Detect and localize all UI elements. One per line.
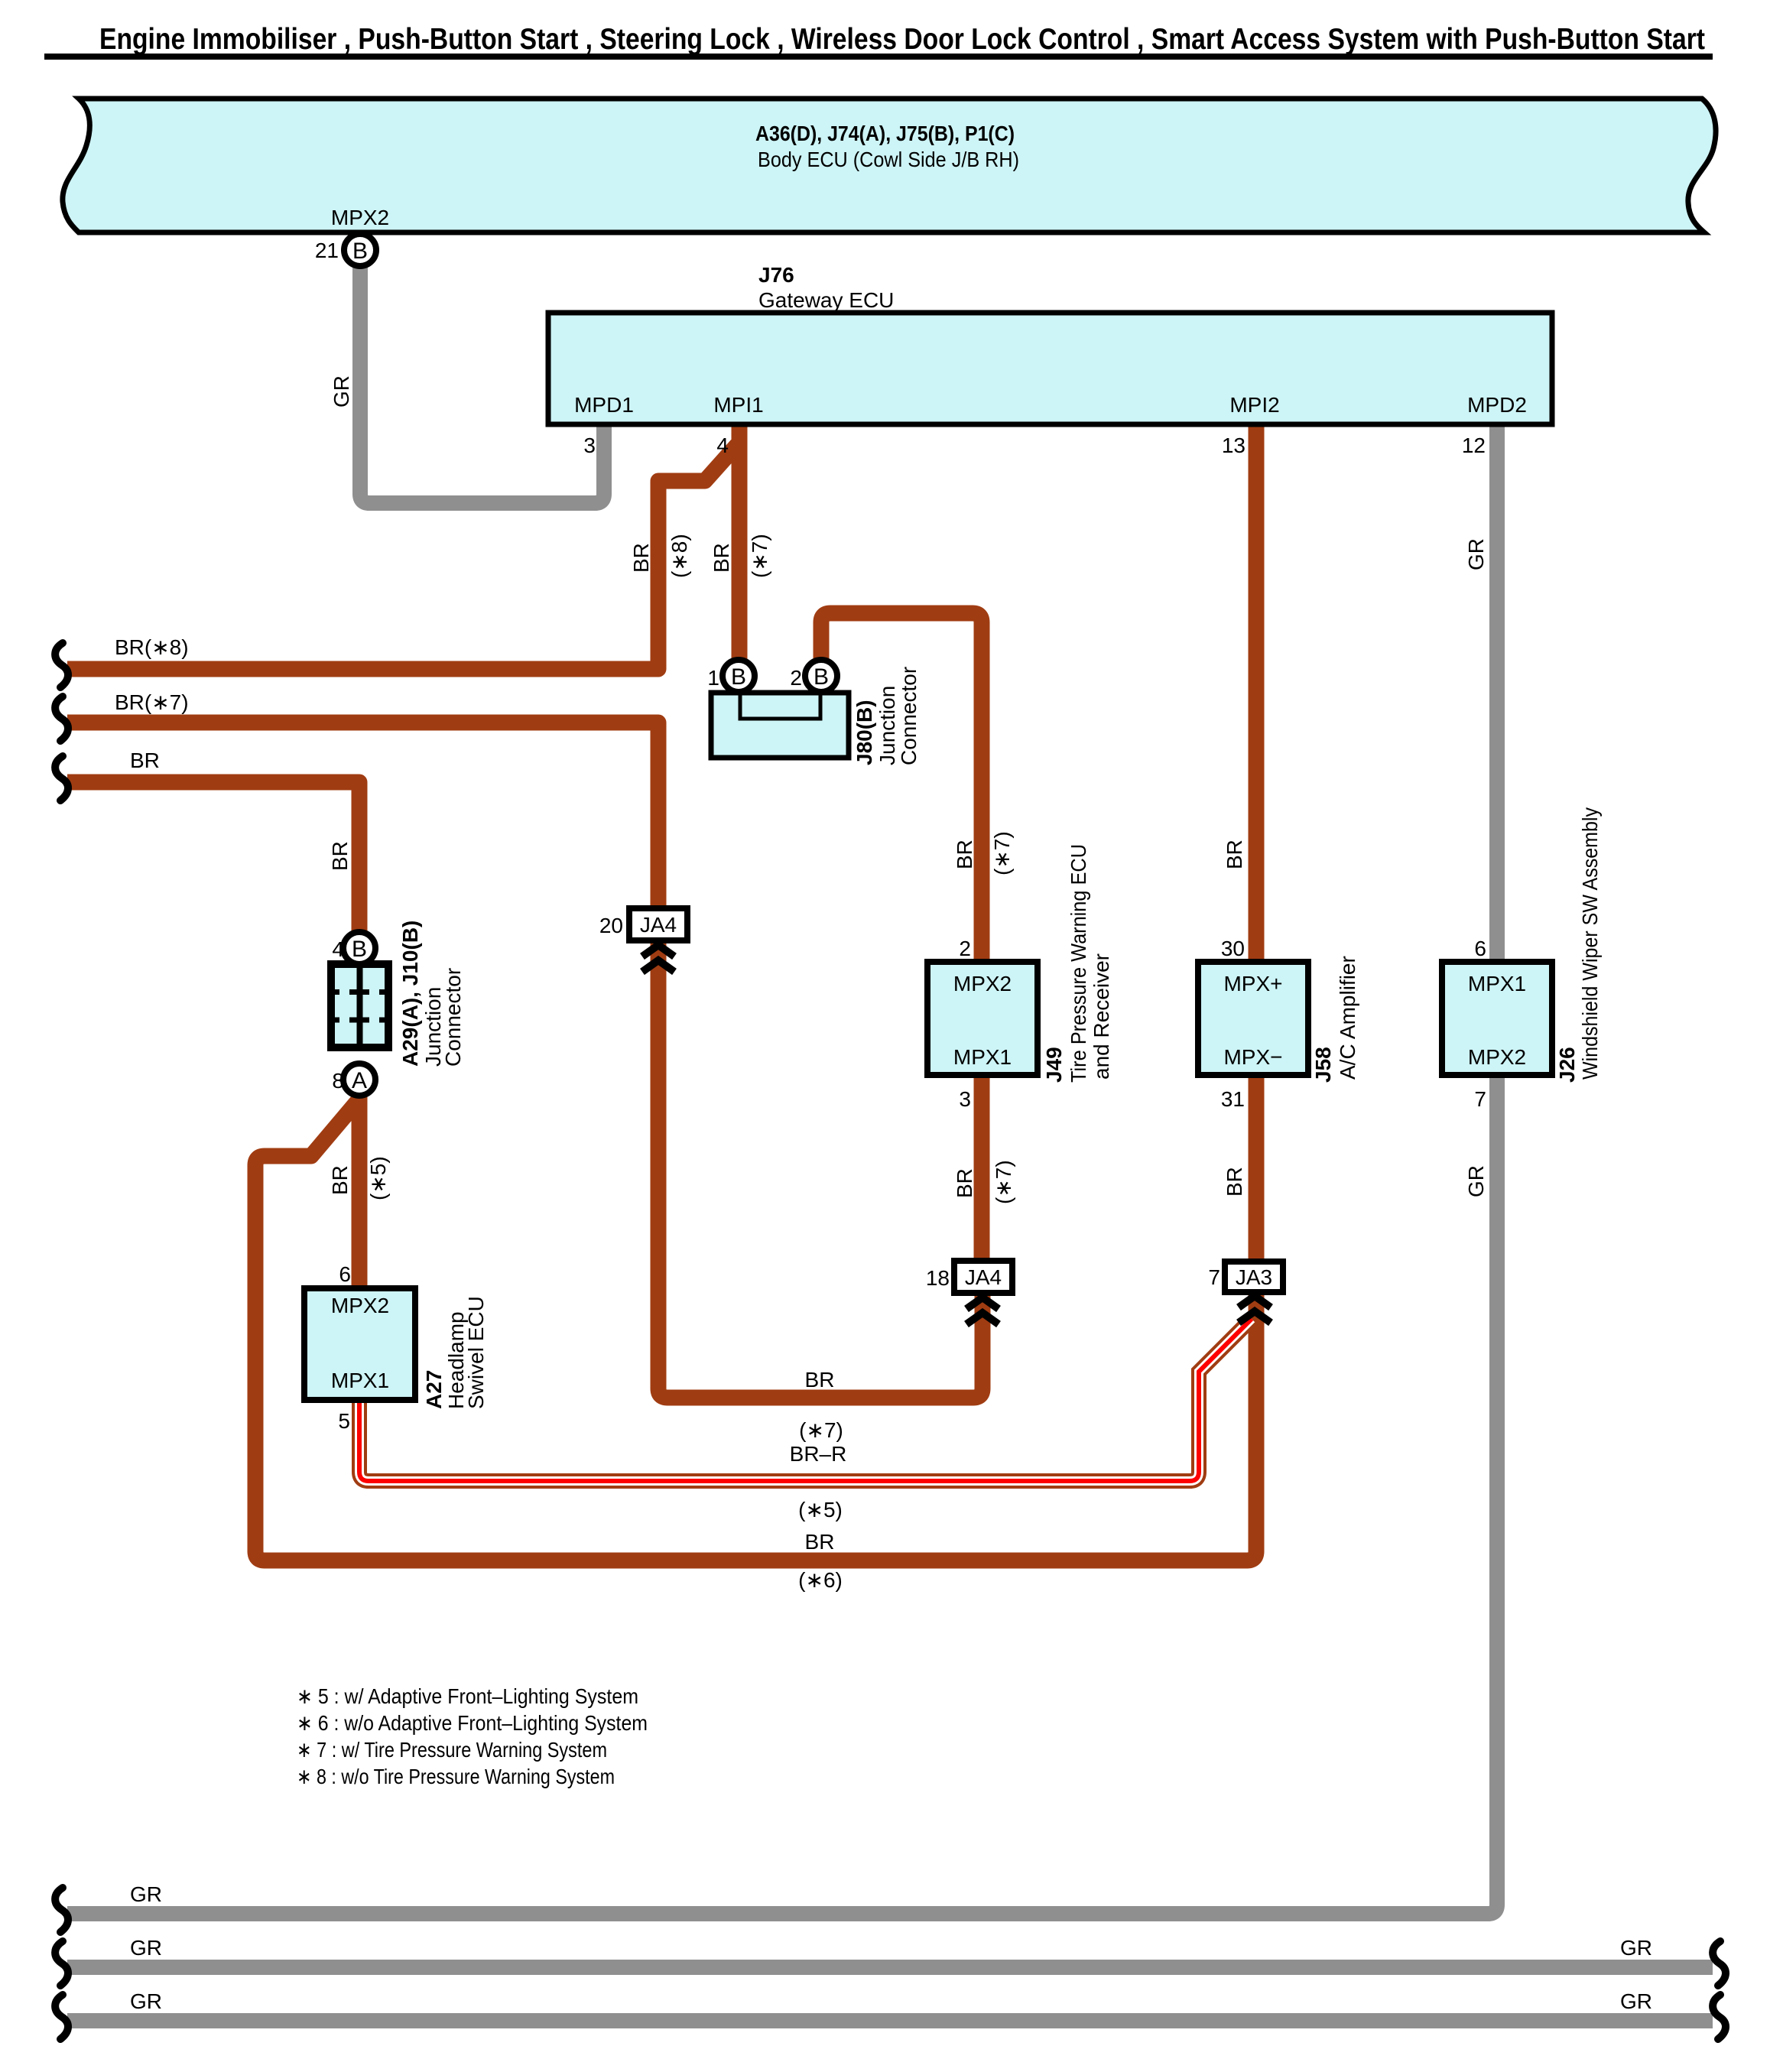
connector box JA3 pin 7 — [1225, 1262, 1283, 1292]
svg-text:JA3: JA3 — [1236, 1265, 1272, 1289]
svg-text:GR: GR — [1464, 1165, 1488, 1197]
svg-text:Engine Immobiliser , Push-Butt: Engine Immobiliser , Push-Button Start ,… — [99, 23, 1705, 56]
svg-text:MPX+: MPX+ — [1223, 972, 1282, 995]
svg-text:(∗7): (∗7) — [992, 1160, 1015, 1204]
title underline — [44, 54, 1713, 60]
svg-text:∗ 7 : w/ Tire Pressure Warning: ∗ 7 : w/ Tire Pressure Warning System — [297, 1738, 607, 1762]
TEXT-LAYER — [115, 122, 1652, 2013]
svg-text:Body ECU (Cowl Side J/B RH): Body ECU (Cowl Side J/B RH) — [758, 148, 1019, 171]
svg-text:BR: BR — [328, 841, 352, 871]
svg-text:MPI1: MPI1 — [713, 393, 763, 417]
svg-text:(∗7): (∗7) — [799, 1418, 843, 1442]
CHEVRON-LAYER — [642, 945, 1271, 1324]
svg-text:GR: GR — [1620, 1989, 1652, 2013]
svg-text:3: 3 — [583, 434, 596, 457]
connector box JA4 pin 20 — [629, 908, 687, 940]
wire BR from A29/J10 pin 8 to A27 pin 6 — [352, 1094, 368, 1290]
svg-text:GR: GR — [1620, 1936, 1652, 1960]
svg-text:J26: J26 — [1555, 1047, 1579, 1083]
pin circle B of J80 pin 1 — [723, 660, 755, 692]
svg-text:31: 31 — [1221, 1087, 1245, 1111]
svg-text:30: 30 — [1221, 937, 1245, 960]
svg-text:∗ 8 : w/o Tire Pressure Warnin: ∗ 8 : w/o Tire Pressure Warning System — [297, 1765, 615, 1788]
svg-text:Windshield Wiper SW Assembly: Windshield Wiper SW Assembly — [1578, 807, 1602, 1080]
svg-text:7: 7 — [1208, 1265, 1220, 1289]
pin circle B of J80 pin 2 — [805, 660, 837, 692]
svg-text:8: 8 — [332, 1069, 344, 1093]
svg-text:1: 1 — [707, 666, 719, 690]
svg-text:A/C Amplifier: A/C Amplifier — [1336, 956, 1359, 1080]
svg-text:(∗5): (∗5) — [798, 1498, 843, 1522]
svg-text:J58: J58 — [1311, 1047, 1335, 1083]
svg-text:MPX2: MPX2 — [331, 206, 389, 229]
svg-text:GR: GR — [130, 1882, 162, 1906]
wire BR(*7) from left edge to JA4 pin 20 — [67, 723, 658, 910]
svg-text:J49: J49 — [1042, 1047, 1066, 1083]
svg-text:GR: GR — [1464, 538, 1488, 570]
svg-text:2: 2 — [790, 666, 802, 690]
ECU box A27 Headlamp Swivel ECU — [304, 1288, 415, 1400]
wire BR(*7) from J49 MPX1 pin 3 to JA4 pin 18 — [974, 1072, 990, 1262]
wire GR horizontal bus 3 — [67, 2013, 1713, 2028]
wire GR from J26 pin 7 down to bottom horizontal GR bus — [67, 1072, 1497, 1914]
wire GR from Gateway MPD2 pin 12 to J26 pin 6 — [1489, 422, 1505, 965]
svg-text:Swivel ECU: Swivel ECU — [464, 1296, 488, 1409]
svg-text:A27: A27 — [422, 1370, 446, 1409]
svg-text:MPX−: MPX− — [1223, 1045, 1282, 1069]
svg-text:GR: GR — [130, 1936, 162, 1960]
wire-break squiggle BR(*8) left — [55, 643, 68, 687]
svg-text:B: B — [814, 664, 829, 690]
wire BR Gateway MPI1 pin 4 to J80 pin 1 — [732, 422, 748, 662]
svg-text:MPX2: MPX2 — [331, 1294, 389, 1317]
svg-text:GR: GR — [330, 375, 353, 408]
chevron pair below JA3 pin 7 — [1239, 1296, 1271, 1307]
pin circle B of Body ECU pin 21 — [344, 234, 376, 266]
svg-text:6: 6 — [339, 1262, 351, 1286]
wire BR from left edge to junction connector A29/J10 pin 4 — [67, 782, 359, 934]
svg-text:MPX2: MPX2 — [1468, 1045, 1526, 1069]
wire GR from Body ECU pin 21(B) to Gateway MPD1 pin 3 — [360, 260, 604, 503]
svg-text:Connector: Connector — [897, 667, 921, 765]
svg-text:B: B — [352, 937, 367, 962]
svg-text:(∗8): (∗8) — [667, 534, 691, 578]
svg-text:12: 12 — [1462, 434, 1486, 457]
svg-text:4: 4 — [332, 937, 344, 961]
svg-text:BR(∗8): BR(∗8) — [115, 635, 189, 659]
svg-text:21: 21 — [315, 239, 339, 262]
BOXES-LAYER — [63, 99, 1716, 1400]
wire BR from JA4 pin20 tail to JA4 pin18 tail (BR *7 bottom run) — [658, 939, 982, 1398]
wire-break squiggle GR bus2 left — [55, 1941, 68, 1986]
wire BR(*6) branch from A29 pin-8 wire down and right to JA3 pin 7 — [255, 1102, 1256, 1560]
svg-text:∗ 6 : w/o Adaptive Front–Light: ∗ 6 : w/o Adaptive Front–Lighting System — [297, 1711, 648, 1735]
svg-text:BR: BR — [953, 840, 976, 869]
svg-text:BR: BR — [328, 1165, 352, 1195]
wire BR(*8) branch from pin-4 wire to left edge — [67, 445, 737, 669]
wire-break squiggle GR bus3 right — [1713, 1995, 1726, 2039]
junction connector A29(A),J10(B) grid box — [331, 964, 388, 1047]
connector box JA4 pin 18 — [954, 1261, 1012, 1293]
ECU box J76 Gateway ECU — [548, 313, 1552, 424]
ECU box J26 Windshield Wiper SW Assembly — [1442, 962, 1552, 1075]
svg-text:18: 18 — [926, 1266, 950, 1290]
svg-text:4: 4 — [716, 434, 729, 457]
svg-text:BR: BR — [805, 1368, 835, 1392]
svg-text:7: 7 — [1474, 1087, 1486, 1111]
svg-text:BR: BR — [130, 749, 160, 772]
junction connector J80(B) box — [711, 693, 849, 758]
svg-text:(∗7): (∗7) — [990, 831, 1014, 875]
svg-text:J76: J76 — [758, 263, 794, 287]
wire BR-R (*5) from A27 pin 5 to JA3 chevron — [359, 1319, 1252, 1481]
svg-text:(∗6): (∗6) — [798, 1568, 843, 1592]
wire BR from J58 MPX- pin 31 to JA3 pin 7 — [1249, 1072, 1265, 1263]
svg-text:Tire Pressure Warning ECU: Tire Pressure Warning ECU — [1067, 844, 1090, 1083]
ECU box A36(D),J74(A),J75(B),P1(C) Body ECU (Cowl Side J/B RH) — [63, 99, 1716, 232]
svg-text:MPX1: MPX1 — [331, 1369, 389, 1392]
svg-text:J80(B): J80(B) — [853, 700, 876, 765]
svg-text:BR–R: BR–R — [790, 1442, 847, 1466]
svg-text:MPX1: MPX1 — [953, 1045, 1012, 1069]
wire-break squiggle GR bus3 left — [55, 1995, 68, 2039]
wire BR from Gateway MPI2 pin 13 to J58 MPX+ pin 30 — [1249, 422, 1265, 965]
svg-text:BR: BR — [710, 543, 733, 573]
svg-text:13: 13 — [1222, 434, 1245, 457]
svg-text:Junction: Junction — [875, 686, 899, 765]
svg-text:BR: BR — [805, 1530, 835, 1554]
wire GR horizontal bus 2 — [67, 1960, 1713, 1975]
wire-break squiggle BR left — [55, 756, 68, 801]
svg-text:BR: BR — [629, 543, 653, 573]
junction connector J80(B) notch — [740, 694, 820, 719]
svg-text:A: A — [352, 1068, 367, 1093]
svg-text:Connector: Connector — [441, 968, 465, 1067]
pin circle A of A29/J10 pin 8 — [343, 1064, 375, 1096]
wire-break squiggle GR bus2 right — [1713, 1941, 1726, 1986]
svg-text:(∗5): (∗5) — [366, 1156, 390, 1200]
wire-break squiggle BR(*7) left — [55, 697, 68, 741]
svg-text:BR: BR — [1223, 1167, 1246, 1197]
svg-text:B: B — [731, 664, 746, 690]
svg-text:BR: BR — [1223, 840, 1246, 869]
svg-text:A29(A), J10(B): A29(A), J10(B) — [398, 921, 422, 1067]
wire BR from J80 pin 2 to J49 MPX2 pin 2 — [821, 613, 982, 965]
svg-text:3: 3 — [959, 1087, 971, 1111]
svg-text:Gateway ECU: Gateway ECU — [758, 288, 894, 312]
CIRCLE-LAYER — [343, 234, 837, 1096]
svg-text:BR: BR — [953, 1168, 976, 1198]
svg-text:GR: GR — [130, 1989, 162, 2013]
svg-text:MPX1: MPX1 — [1468, 972, 1526, 995]
svg-text:BR(∗7): BR(∗7) — [115, 690, 189, 714]
svg-text:6: 6 — [1474, 937, 1486, 960]
ECU box J49 Tire Pressure Warning ECU and Receiver — [927, 962, 1038, 1075]
pin circle B of A29/J10 pin 4 — [343, 932, 375, 964]
chevron pair below JA4 pin 20 — [642, 945, 674, 956]
svg-text:MPX2: MPX2 — [953, 972, 1012, 995]
svg-text:∗ 5 : w/ Adaptive Front–Lighti: ∗ 5 : w/ Adaptive Front–Lighting System — [297, 1684, 638, 1708]
ECU box J58 A/C Amplifier — [1198, 962, 1308, 1075]
svg-text:JA4: JA4 — [640, 913, 677, 937]
svg-text:MPD1: MPD1 — [574, 393, 634, 417]
wire-break squiggle GR bus1 left — [55, 1888, 68, 1932]
svg-text:B: B — [352, 239, 368, 264]
svg-text:A36(D), J74(A), J75(B), P1(C): A36(D), J74(A), J75(B), P1(C) — [755, 122, 1015, 145]
svg-text:and Receiver: and Receiver — [1090, 953, 1113, 1080]
svg-text:JA4: JA4 — [965, 1265, 1002, 1289]
svg-text:(∗7): (∗7) — [748, 534, 771, 578]
chevron pair below JA4 pin 18 — [966, 1297, 999, 1309]
svg-text:2: 2 — [959, 937, 971, 960]
svg-text:MPI2: MPI2 — [1229, 393, 1279, 417]
svg-text:MPD2: MPD2 — [1467, 393, 1527, 417]
svg-text:5: 5 — [338, 1409, 350, 1433]
svg-text:20: 20 — [599, 914, 623, 937]
